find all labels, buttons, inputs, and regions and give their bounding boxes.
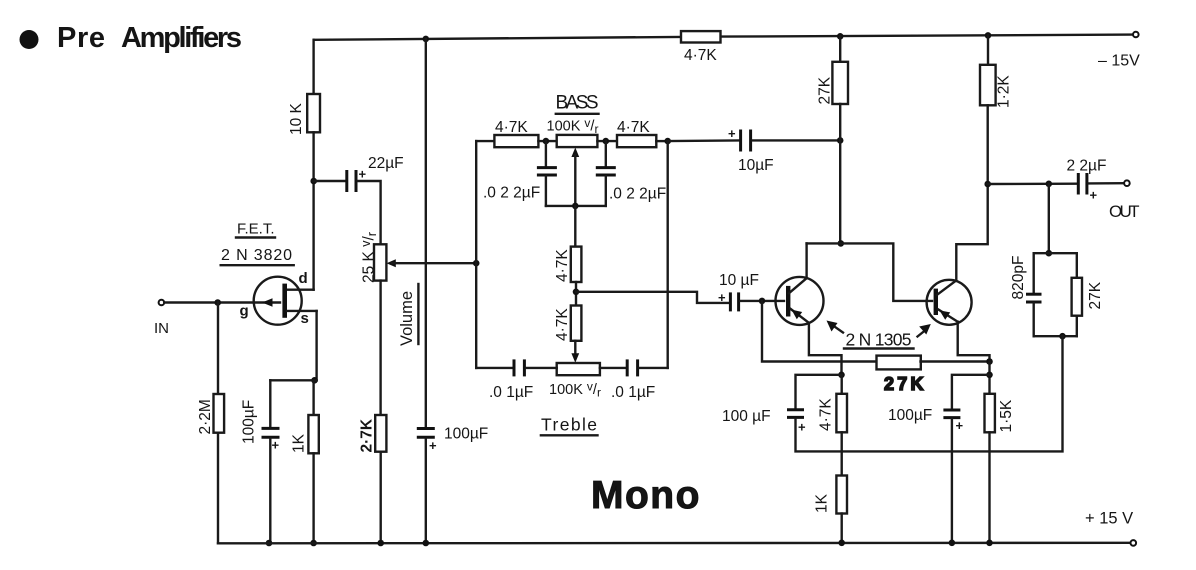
wire: .022uF left bottom lead [545, 176, 547, 206]
capacitor 10uF (interstage top) [741, 130, 751, 152]
node: 27K column / 10uF junction [837, 137, 844, 144]
transistor Q2 2N1305 [927, 280, 972, 325]
resistor 27K (Q1 collector load) [832, 62, 848, 104]
wire: 22uF to volume pot top [358, 181, 381, 244]
svg-text:4·7K: 4·7K [554, 249, 571, 282]
svg-text:g: g [240, 303, 249, 320]
terminal IN [159, 300, 165, 306]
svg-text:100K v/r: 100K v/r [547, 116, 599, 136]
node: 22uF tap on drain column [310, 178, 317, 185]
wire: source node to 100uF top [270, 379, 316, 381]
svg-text:+: + [718, 290, 726, 305]
capacitor 10uF (base coupling) [730, 292, 738, 311]
wire: treble row right lead [639, 367, 667, 369]
svg-text:BASS: BASS [556, 93, 599, 114]
wire: +15V bottom rail [218, 542, 1133, 545]
svg-text:+: + [429, 438, 437, 453]
resistor 10K [307, 94, 320, 132]
wire: 1K bottom to rail [841, 514, 843, 543]
wire: collector bus to Q2 base [807, 243, 932, 301]
label Treble [541, 415, 598, 436]
svg-text:1K: 1K [814, 493, 831, 513]
node: bass left junction [543, 138, 550, 145]
wire: volume wiper to tone network [392, 262, 476, 264]
wire: 100uF (Q1) top bracket [796, 375, 842, 409]
node: 100uF tap on Q2 emitter [986, 372, 993, 379]
node: 100uF Q2 to rail [949, 540, 956, 547]
wire: IN to gate [164, 301, 280, 303]
wire: bass row lead a [538, 140, 556, 142]
wire: Q1 emitter down [809, 323, 842, 375]
resistor 4.7K (mid lower) [571, 306, 582, 341]
node: 1K Q1 to rail [838, 540, 845, 547]
capacitor 100uF (Q1 emitter bypass) [787, 410, 804, 418]
svg-text:.0 2 2µF: .0 2 2µF [483, 185, 540, 202]
svg-text:4·7K: 4·7K [617, 119, 650, 136]
resistor 2.7K [375, 415, 386, 452]
capacitor .022uF (right) [596, 168, 616, 175]
wire: 100uF top lead [269, 380, 271, 427]
svg-text:2 2µF: 2 2µF [1067, 158, 1107, 175]
wire: 820pF bottom lead [1032, 303, 1034, 336]
wire: 10K top lead from rail corner [312, 40, 314, 94]
wire: .022uF right bottom lead [605, 176, 607, 206]
resistor 1.2K (Q2 collector load) [980, 65, 996, 106]
svg-text:10 µF: 10 µF [719, 272, 759, 289]
node: 100uF to +15 rail [266, 540, 273, 547]
wire: 27K fb top lead [1076, 253, 1078, 278]
wire: mid chain to signal node [575, 282, 577, 306]
label F.E.T. [236, 221, 275, 238]
node: 1.2K column on top rail [985, 32, 992, 39]
potentiometer 100K treble [557, 363, 600, 375]
wire: 1.5K bottom to rail [988, 432, 990, 543]
node: 27K column on top rail [837, 33, 844, 40]
wire: .022uF left top lead [545, 141, 547, 166]
svg-text:820pF: 820pF [1010, 256, 1027, 300]
capacitor 100uF (rail decoupling) [417, 429, 435, 438]
node: Q1 emitter network junction [838, 372, 845, 379]
capacitor 100uF (FET source bypass) [262, 428, 280, 437]
node: feedback network bottom [1059, 333, 1066, 340]
resistor 1K (Q1) [836, 476, 847, 514]
wire: tone network left bracket [475, 141, 477, 368]
wire: feedback network top bar [1034, 252, 1077, 254]
resistor 4.7K (bass right) [617, 135, 656, 147]
node: OUT tap on 1.2K column [984, 181, 991, 188]
wire: FET source column [315, 311, 317, 380]
svg-text:OUT: OUT [1109, 202, 1140, 221]
label Volume [398, 284, 418, 346]
wire: 1.2K top lead [987, 35, 989, 64]
resistor 4.7K (bass left) [494, 135, 538, 147]
node: 2.7K to rail [377, 540, 384, 547]
svg-text:10µF: 10µF [738, 157, 774, 174]
terminal +15V [1131, 540, 1137, 546]
node: decoupling to rail [423, 540, 430, 547]
node: 1.5K to rail [986, 540, 993, 547]
svg-text:+: + [728, 126, 736, 141]
transistor Q1 2N1305 [776, 277, 824, 325]
wire: 1K top lead [312, 380, 314, 415]
svg-text:100µF: 100µF [241, 400, 258, 444]
svg-text:4·7K: 4·7K [818, 398, 835, 431]
wire: feedback pickup down [1048, 184, 1050, 253]
svg-text:d: d [299, 270, 308, 287]
wire: bass wiper bus [546, 205, 606, 207]
svg-text:– 15V: – 15V [1098, 53, 1140, 70]
svg-text:100µF: 100µF [444, 426, 488, 443]
node: gate / 2.2M junction [214, 299, 221, 306]
wire: 27K fb bottom lead [1076, 316, 1078, 337]
wire: Q1 collector up [805, 243, 807, 278]
wire: middle chain upper lead [574, 206, 576, 247]
wire: 1K bottom to rail [312, 453, 314, 543]
node: decoupling column on top rail [423, 36, 430, 43]
wire: feedback from Q1 base [762, 301, 877, 362]
wire: tone output to 10uF coupling [576, 292, 729, 303]
wire: decoupling column lower [425, 439, 427, 543]
wire: 1.2K bottom to Q2 collector [956, 105, 987, 280]
svg-text:+: + [359, 167, 367, 182]
wire: bass row right lead [656, 140, 667, 142]
node: bass right junction [603, 138, 610, 145]
capacitor .01uF (left) [514, 359, 524, 376]
svg-text:4·7K: 4·7K [554, 308, 571, 341]
svg-text:PreAmplifiers: PreAmplifiers [57, 22, 242, 54]
wire: feedback network bottom bar [1034, 335, 1077, 337]
wire: bass row left lead [476, 140, 494, 142]
wire: 100uF bottom lead to rail [269, 439, 271, 543]
wire: bass row to 10uF top coupling [668, 139, 739, 142]
svg-text:27K: 27K [1087, 281, 1104, 309]
svg-text:+: + [798, 420, 806, 435]
svg-text:2 N 3820: 2 N 3820 [221, 247, 292, 264]
wire: tone network right bracket [667, 141, 669, 368]
svg-text:.0 1µF: .0 1µF [489, 384, 533, 401]
wire: 27K bottom lead to collector bus [839, 104, 841, 243]
wire: 4.7K bottom / NFB node [841, 432, 843, 475]
resistor 27K (feedback) [877, 356, 921, 370]
title bullet [20, 30, 39, 49]
node: tone output node [573, 289, 580, 296]
wire: 10uF to 27K column [753, 139, 841, 141]
wire: 2.2M top lead [217, 303, 219, 395]
arrow annotation to Q1 [827, 321, 844, 333]
resistor 4.7K (Q1 emitter) [836, 375, 847, 433]
wire: .022uF right top lead [605, 141, 607, 166]
wire: 820pF top lead [1032, 253, 1034, 292]
wire: 100uF (Q1) bottom lead [796, 419, 842, 452]
svg-text:27K: 27K [817, 76, 834, 104]
arrow annotation to Q2 [918, 324, 931, 337]
terminal OUT [1124, 180, 1130, 186]
wire: feedback 27K to Q2 emitter [921, 360, 990, 362]
wire: 2.2M bottom to rail corner [217, 433, 219, 544]
node: OUT / feedback pickup [1046, 181, 1053, 188]
svg-text:27K: 27K [884, 374, 924, 394]
capacitor 820pF [1026, 294, 1042, 302]
wire: treble row left lead [476, 367, 512, 369]
resistor 4.7K (top rail series) [681, 31, 721, 42]
svg-text:+: + [1090, 188, 1098, 203]
wire: 27K top lead [839, 36, 841, 62]
wire: -15V top rail [314, 35, 1133, 40]
wire: 2.7K bottom to rail [380, 452, 382, 543]
svg-text:100µF: 100µF [888, 407, 932, 424]
svg-text:.0 1µF: .0 1µF [611, 384, 655, 401]
svg-text:.0 2 2µF: .0 2 2µF [609, 186, 666, 203]
svg-text:1·5K: 1·5K [998, 399, 1015, 432]
wire: treble row lead a [526, 367, 557, 369]
svg-text:10 K: 10 K [288, 102, 305, 135]
svg-text:+: + [272, 438, 280, 453]
wire: drain column (10K bottom to FET drain) [287, 132, 314, 289]
transistor FET 2N3820 [254, 277, 317, 325]
wire: 22uF left lead [314, 180, 345, 182]
svg-text:25 K v/r: 25 K v/r [359, 232, 379, 283]
wire: 100uF (Q2) bottom lead [951, 419, 953, 543]
svg-text:2·2M: 2·2M [197, 399, 214, 434]
capacitor 22uF (volume coupling) [347, 170, 356, 192]
wire: feedback return to NFB node [842, 336, 1063, 451]
svg-text:IN: IN [154, 320, 169, 337]
capacitor 100uF (Q2 emitter bypass) [943, 410, 960, 418]
node: collector bus junction [838, 240, 845, 247]
node: source / 1K / 100uF junction [311, 377, 318, 384]
wire: decoupling column upper [425, 39, 427, 427]
terminal -15V [1133, 32, 1139, 38]
svg-text:1·2K: 1·2K [996, 75, 1013, 108]
svg-text:Volume: Volume [398, 291, 416, 346]
svg-text:+ 15 V: + 15 V [1085, 510, 1133, 528]
wire: bass row lead b [597, 140, 617, 142]
wire: treble wiper lead [571, 341, 579, 363]
capacitor .01uF (right) [627, 359, 637, 376]
svg-text:Treble: Treble [541, 415, 597, 435]
resistor 4.7K (mid upper) [571, 247, 582, 282]
wire: 100uF (Q2) top bracket [952, 375, 990, 409]
node: Q2 emitter / feedback junction [986, 358, 993, 365]
wire: Q2 emitter node down [988, 362, 990, 394]
wire: 10uF to Q1 base [740, 300, 784, 302]
node: feedback network top [1046, 250, 1053, 257]
label 2N3820 [221, 247, 294, 265]
node: Q1 base / feedback junction [759, 298, 766, 305]
resistor 2.2M [214, 394, 225, 433]
svg-text:100 µF: 100 µF [722, 408, 771, 425]
svg-text:22µF: 22µF [368, 155, 404, 172]
svg-text:F.E.T.: F.E.T. [237, 221, 275, 238]
wire: 22uF to OUT terminal [1089, 182, 1124, 185]
resistor 27K (output network) [1072, 278, 1082, 316]
resistor 1K (FET source) [308, 415, 318, 453]
node: 1K to rail [310, 540, 317, 547]
node: wiper to left bracket [473, 260, 480, 267]
resistor 1.5K (Q2 emitter) [985, 394, 995, 433]
wire: volume pot bottom to 2.7K [379, 281, 381, 415]
svg-text:4·7K: 4·7K [684, 47, 717, 64]
wire: OUT node to coupling cap [988, 182, 1077, 185]
wire: treble row lead b [600, 367, 626, 369]
potentiometer 100K bass [557, 135, 598, 206]
svg-text:4·7K: 4·7K [495, 119, 528, 136]
node: bass wiper junction [572, 203, 579, 210]
capacitor 22uF (output) [1078, 173, 1087, 195]
svg-text:100K v/r: 100K v/r [549, 380, 601, 400]
svg-text:2 N 1305: 2 N 1305 [846, 330, 912, 350]
capacitor .022uF (left) [537, 168, 557, 175]
svg-text:s: s [301, 310, 309, 327]
svg-text:1K: 1K [291, 433, 308, 453]
svg-text:+: + [956, 418, 964, 433]
svg-text:Mono: Mono [591, 474, 701, 517]
wire: Q2 emitter down [958, 322, 990, 362]
potentiometer 25K volume [374, 244, 396, 280]
node: bass row to right bracket [664, 138, 671, 145]
svg-text:2·7K: 2·7K [359, 418, 376, 452]
label 2N1305 [844, 330, 914, 350]
label BASS [556, 93, 599, 114]
